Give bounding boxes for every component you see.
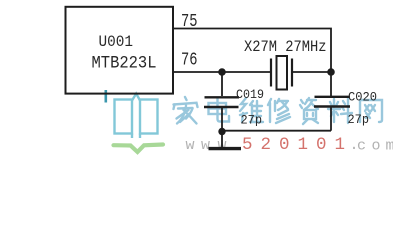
ground: [209, 132, 242, 149]
node B junction dot (pin 75 / crystal / C020): [327, 68, 335, 76]
svg-text:o: o: [372, 138, 381, 155]
svg-text:U001: U001: [99, 33, 134, 51]
svg-text:X27M 27MHz: X27M 27MHz: [244, 38, 327, 56]
capacitor C020: [314, 72, 350, 131]
IC U001 box: [66, 7, 174, 94]
watermark char 维: [240, 98, 263, 122]
wire pin 76 from IC to crystal left plate: [173, 71, 271, 73]
watermark logo book icon: [106, 90, 158, 138]
svg-text:76: 76: [181, 50, 198, 71]
wire bottom C019 node to C020 leg: [222, 130, 331, 132]
watermark url .com: [350, 137, 393, 155]
crystal X27M symbol: [271, 56, 331, 90]
svg-text:27p: 27p: [241, 114, 263, 128]
svg-text:C019: C019: [236, 88, 264, 102]
watermark logo green swoosh: [114, 145, 164, 153]
wire pin 75 from IC to right elbow and down to node B: [173, 29, 331, 73]
watermark char 资: [300, 98, 318, 124]
svg-text:27p: 27p: [348, 113, 370, 127]
svg-text:MTB223L: MTB223L: [92, 54, 157, 74]
watermark char 家: [174, 97, 198, 124]
watermark char 网: [360, 100, 382, 122]
watermark char 料: [328, 98, 352, 123]
node A junction dot (pin 76 / C019): [218, 68, 226, 76]
node C junction dot (ground node): [218, 128, 225, 135]
svg-text:w: w: [201, 137, 210, 154]
svg-text:c: c: [357, 138, 366, 155]
svg-text:520101: 520101: [242, 135, 353, 155]
svg-text:m: m: [386, 138, 393, 155]
watermark char 电: [209, 98, 230, 122]
capacitor C019: [204, 72, 239, 132]
watermark char 修: [268, 99, 290, 123]
watermark url www: [186, 137, 227, 154]
svg-text:C020: C020: [348, 91, 377, 105]
svg-text:w: w: [186, 137, 195, 154]
